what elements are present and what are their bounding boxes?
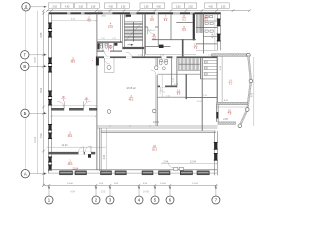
thin line y50.3 — [196, 49, 217, 51]
leader axis 5 — [154, 186, 156, 196]
leader axis 4 — [138, 186, 140, 196]
svg-text:2.05: 2.05 — [144, 6, 149, 8]
door swing y152 right leaf — [85, 146, 91, 152]
stair1 divider — [132, 22, 134, 42]
red label room 7 — [163, 16, 167, 22]
red label room 12 — [193, 44, 197, 50]
bay bottom wall (hatched) — [218, 122, 236, 124]
red label room 9 — [182, 26, 186, 32]
bottom outer wall — [49, 169, 218, 171]
left wall window — [48, 99, 52, 100]
grid bubble 4 — [135, 196, 143, 204]
right outer wall bottom wing — [213, 131, 215, 175]
wc fixtures right block — [159, 60, 162, 62]
stairwell 1 bottom wall — [123, 47, 145, 49]
wall y21 — [203, 20, 217, 22]
left wall window — [48, 157, 52, 158]
left wall window — [48, 66, 52, 67]
svg-text:4.04: 4.04 — [213, 33, 215, 38]
red label bay hall — [228, 79, 232, 85]
wall right of top-center room — [120, 14, 122, 42]
stall line — [204, 69, 218, 71]
svg-text:17.2: 17.2 — [108, 26, 113, 29]
grid bubble Д — [22, 3, 30, 11]
svg-text:2.05x1.2: 2.05x1.2 — [148, 30, 157, 32]
leader axis Б — [29, 112, 46, 114]
leader axis А — [30, 173, 47, 175]
svg-text:3.30: 3.30 — [78, 6, 83, 8]
wc red circle mark — [109, 45, 112, 48]
thin line y54.3 — [145, 53, 196, 55]
wc toilets — [100, 43, 103, 45]
right outer wall top block — [216, 13, 218, 50]
left outer wall — [48, 13, 50, 173]
hall right wall x156-157.5 — [155, 58, 157, 70]
leader axis 6 — [169, 186, 171, 196]
grid bubble 7 — [212, 196, 220, 204]
top wall window — [190, 12, 195, 14]
svg-text:38.1: 38.1 — [71, 61, 76, 64]
bottom wing left wall x100.3 — [99, 128, 101, 171]
bottom wall window block — [142, 171, 153, 175]
left wall window — [48, 91, 52, 92]
bay glazing line — [221, 56, 223, 102]
wall y97.2 left part — [158, 96, 187, 98]
room wall x171 — [170, 14, 172, 40]
top outer wall — [49, 12, 221, 14]
wc cubicle dividers — [102, 43, 104, 51]
interior wall y22.6 — [176, 22, 193, 24]
stair2 divider — [179, 63, 200, 65]
svg-text:3.30: 3.30 — [121, 6, 126, 8]
fixture — [205, 16, 208, 18]
svg-text:Б: Б — [24, 111, 27, 116]
stall line — [204, 60, 218, 62]
shaft on wing wall — [96, 57, 99, 66]
grid bubble Г — [21, 51, 29, 59]
svg-text:30.1: 30.1 — [68, 135, 73, 138]
leader axis 3 — [109, 186, 111, 196]
stall line — [204, 72, 218, 74]
room wall x158 — [157, 14, 159, 47]
door swing right (opens up) — [84, 101, 91, 108]
bay column mid — [249, 79, 253, 83]
bottom dimension line — [44, 184, 218, 186]
leader axis В — [29, 65, 47, 67]
stairwell 1 right wall — [142, 13, 144, 56]
svg-text:48.2: 48.2 — [129, 98, 134, 101]
top dimension line — [47, 10, 249, 12]
interior wall y39.7 — [152, 39, 196, 41]
wc dark block left — [97, 43, 99, 49]
svg-text:3.30: 3.30 — [176, 6, 181, 8]
left wall window — [48, 165, 52, 166]
red label room 8 — [182, 15, 186, 21]
svg-text:2.62: 2.62 — [52, 6, 57, 8]
wc room top wall — [97, 42, 122, 43]
red label bottom-right room — [152, 145, 157, 151]
interior wall y27.2 with door — [145, 26, 148, 28]
stall line — [204, 63, 218, 65]
svg-text:3.85: 3.85 — [40, 32, 43, 37]
right top wall window — [217, 19, 221, 20]
wall x203.4 — [202, 13, 204, 53]
svg-text:14.06: 14.06 — [143, 191, 149, 193]
bay column top — [246, 53, 250, 57]
corridor wall y85.5 — [158, 86, 177, 88]
svg-text:14.06: 14.06 — [67, 183, 73, 185]
svg-text:18.05 м2: 18.05 м2 — [126, 88, 136, 90]
svg-text:3.04: 3.04 — [103, 154, 106, 159]
stairwell 1 left wall — [122, 14, 124, 49]
thick wall x182.7 — [182, 39, 184, 56]
door swing left (opens up into room 5) — [57, 101, 64, 108]
svg-text:4.04: 4.04 — [70, 191, 75, 193]
svg-text:8.05: 8.05 — [252, 92, 254, 97]
stall fixture — [205, 67, 208, 69]
grid bubble 2 — [92, 196, 100, 204]
svg-text:12.04: 12.04 — [153, 121, 160, 124]
left wall window — [48, 58, 52, 59]
bottom wall window block — [197, 171, 209, 175]
bottom wall window block — [159, 171, 171, 175]
fixture — [205, 22, 208, 24]
svg-text:3.30: 3.30 — [221, 6, 226, 8]
red label room 6 — [150, 16, 154, 22]
svg-text:4.50: 4.50 — [65, 6, 70, 8]
vertical dim line x106 — [105, 128, 107, 173]
columns in hall — [107, 65, 111, 69]
door swing at stair corridor gap — [126, 52, 132, 58]
red label room a1 — [87, 17, 91, 22]
bottom wall window block — [180, 171, 192, 175]
stall fixture — [205, 73, 208, 75]
window block bay room left wall — [216, 112, 218, 119]
svg-text:2.05: 2.05 — [91, 6, 96, 8]
svg-text:Д: Д — [25, 4, 28, 9]
svg-text:4.50: 4.50 — [156, 6, 161, 8]
interior dim line left wing — [52, 115, 97, 117]
stairwell 2 treads — [178, 58, 180, 70]
svg-text:2.62: 2.62 — [188, 6, 193, 8]
svg-text:2.04: 2.04 — [160, 90, 162, 94]
bottom wall window block — [60, 171, 73, 175]
leader axis 7 — [215, 186, 217, 196]
fixture — [210, 22, 213, 24]
left wall window — [48, 133, 52, 134]
bottom wall window block — [115, 171, 126, 175]
svg-text:14.06: 14.06 — [160, 183, 166, 185]
left wall window — [48, 31, 52, 32]
vestibule box at hall entrance — [104, 58, 106, 72]
dim line x215 — [214, 15, 216, 50]
bay left wall — [216, 56, 218, 102]
right dim line x253.8 — [253, 57, 255, 126]
bay dim line — [216, 106, 246, 108]
svg-text:12.04: 12.04 — [190, 160, 197, 163]
svg-text:2.05: 2.05 — [101, 191, 106, 193]
red label room 5 — [71, 57, 76, 63]
stair1 up arrow — [128, 44, 134, 46]
wall between left wing and center — [96, 13, 98, 170]
red label central hall — [129, 95, 134, 101]
red label room 10 — [204, 15, 208, 21]
interior wall y152-154 left wing — [49, 152, 95, 154]
grid bubble В — [21, 62, 29, 70]
wall y27.4 — [196, 26, 217, 28]
wall y36.3 — [203, 35, 217, 37]
svg-text:4.50: 4.50 — [208, 6, 213, 8]
interior dim line y147 — [47, 146, 107, 148]
svg-text:4.50: 4.50 — [108, 6, 113, 8]
stall line — [204, 66, 218, 68]
grid bubble 3 — [106, 196, 114, 204]
thick wall x193.8 — [193, 13, 195, 40]
corridor wall y56.4-58 — [97, 56, 217, 58]
room wall x145.6 — [145, 14, 147, 54]
left axis connector — [24, 11, 26, 170]
bottom wall window block — [101, 171, 112, 175]
left dimension line inner — [43, 11, 45, 186]
svg-text:2.04: 2.04 — [163, 160, 168, 163]
interior dim line room5 top — [52, 20, 97, 22]
leader axis 2 — [95, 186, 97, 196]
fixture — [205, 30, 208, 32]
wall y74.2 left part — [158, 73, 177, 75]
bottom wing window — [214, 153, 218, 154]
bay inner wall y102 (hatched) — [216, 102, 247, 104]
interior wall y46.6 — [145, 46, 171, 48]
svg-text:12.04: 12.04 — [72, 168, 78, 170]
red label room 1 — [68, 160, 73, 166]
wall x202.2 — [201, 58, 203, 131]
left dimension line outer — [36, 11, 38, 174]
door group in bottom wing — [174, 168, 178, 171]
svg-text:12.04: 12.04 — [35, 136, 37, 142]
svg-text:12.04: 12.04 — [192, 183, 198, 185]
grid bubble А — [21, 170, 29, 178]
wall y74.2 under stair2 — [177, 73, 201, 75]
red label room 13 — [176, 89, 180, 95]
stair1 cut slash — [126, 23, 142, 41]
right top wall window — [217, 34, 221, 35]
grid bubble 1 — [45, 196, 53, 204]
svg-text:2.05: 2.05 — [124, 17, 128, 19]
dim line x162 — [161, 75, 163, 97]
grid bubble 6 — [166, 196, 174, 204]
stair1 top landing door block — [126, 15, 132, 17]
bottom wing window — [214, 142, 218, 143]
dark door blob — [159, 45, 164, 48]
bay bottom room left wall — [216, 105, 218, 122]
svg-text:к: к — [92, 60, 93, 62]
wall x171.7 — [171, 58, 173, 85]
stairwell 2 walls — [176, 58, 178, 87]
bay faceted wall — [240, 55, 251, 126]
dim line above wall y108 — [52, 105, 97, 107]
wc room bottom wall — [97, 51, 122, 52]
grid bubble 5 — [151, 196, 159, 204]
fixture — [210, 16, 213, 18]
svg-text:2.05: 2.05 — [223, 119, 228, 121]
stairwell 1 treads — [124, 21, 142, 23]
door swing y152 left leaf — [78, 147, 83, 152]
dim line above wc — [97, 39, 121, 41]
svg-text:А: А — [24, 171, 27, 176]
svg-text:1.20: 1.20 — [112, 38, 116, 40]
bay column bottom — [238, 124, 242, 128]
stair2 bottom line — [178, 69, 200, 71]
top wall window — [130, 12, 137, 14]
shaft next to door y152 — [88, 154, 91, 158]
interior dim line y163.4 — [162, 162, 217, 164]
svg-text:56.3: 56.3 — [152, 148, 157, 151]
top wall window — [173, 12, 180, 14]
red label room 4 — [108, 23, 113, 29]
top wall window — [81, 12, 85, 14]
stall fixture — [205, 61, 208, 63]
svg-text:8.01: 8.01 — [40, 87, 43, 92]
red door label left — [61, 97, 65, 102]
thick wall x186.2 — [185, 74, 187, 99]
top wall window — [103, 12, 113, 14]
left wall window — [48, 23, 52, 24]
red door label right — [84, 98, 88, 103]
small stair3 treads — [196, 15, 198, 34]
interior wall y108-110 left wing — [52, 108, 97, 110]
hall bottom wall double line — [97, 125, 218, 127]
wall y97.4 — [185, 96, 217, 98]
leader axis 1 — [48, 186, 50, 196]
svg-text:1.25: 1.25 — [101, 38, 105, 40]
red label room 2 lower — [68, 132, 73, 138]
top wall window — [67, 12, 71, 14]
svg-text:18.05: 18.05 — [35, 56, 37, 62]
svg-text:12.04: 12.04 — [196, 101, 202, 103]
wc dark block right — [114, 43, 117, 46]
grid bubble Б — [21, 109, 29, 117]
bottom wall window block — [75, 171, 87, 175]
svg-text:28.3: 28.3 — [68, 163, 73, 166]
svg-text:В: В — [23, 64, 26, 69]
wall y43.9 — [196, 43, 217, 45]
leader axis Г — [29, 54, 47, 56]
top wall window — [155, 12, 158, 14]
wall y78.9 — [201, 78, 218, 80]
door swing hall right wall — [151, 70, 156, 75]
svg-text:12.04: 12.04 — [62, 144, 69, 147]
top dimension text boxes (pairs) — [49, 3, 61, 8]
red label room 11 — [152, 34, 156, 40]
bay column low — [246, 108, 250, 112]
svg-text:7.04: 7.04 — [40, 133, 43, 138]
stall line — [204, 75, 218, 77]
bottom wing top wall y131-132.7 double — [101, 130, 216, 132]
red label bay room — [227, 109, 231, 115]
bay top wall (hatched) — [212, 54, 248, 57]
left wall window — [48, 124, 52, 125]
fixture — [210, 30, 213, 32]
leader axis Д — [30, 6, 46, 8]
